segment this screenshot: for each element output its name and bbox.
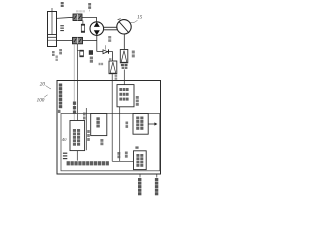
hydraulic pump 14 <box>90 22 104 36</box>
label 53 left of box4 <box>125 152 128 158</box>
hanging label right text <box>155 178 158 195</box>
tick above box4 <box>135 146 138 148</box>
controller inner box 30 <box>61 114 160 171</box>
line right of box1 <box>85 108 87 150</box>
svg-text:40: 40 <box>62 137 67 142</box>
hydraulic cylinder 10 <box>48 8 57 47</box>
solenoid below valve 36a <box>81 21 85 33</box>
arrow out of box3 <box>148 122 157 125</box>
label 31 left of motor bottom <box>108 36 111 42</box>
solenoid valve 36a <box>73 14 82 21</box>
electric motor 15 <box>117 19 131 34</box>
signal line valve2 down to controller <box>76 50 78 120</box>
label 20 <box>40 82 51 90</box>
label on signal line <box>73 102 76 114</box>
hanging label right stub <box>156 174 158 177</box>
label right of line <box>87 130 90 141</box>
wire to relief A <box>112 52 114 62</box>
check valve 34 <box>97 45 113 54</box>
svg-text:20: 20 <box>40 82 46 88</box>
tick left of relief A <box>109 58 111 60</box>
label below block 35 <box>90 57 93 63</box>
wire top from cylinder to valve <box>57 17 74 18</box>
bus line horizontal <box>112 160 133 162</box>
wire motor down <box>123 34 125 50</box>
label 51 right of box2 <box>136 96 139 106</box>
line from box2 bottom down <box>119 107 121 162</box>
second faint signal line <box>73 44 75 120</box>
label below relief 32 <box>121 64 128 69</box>
label left of line <box>83 113 86 120</box>
relief A stub into box down <box>111 74 113 162</box>
shaft pump-motor <box>104 27 117 30</box>
hanging label left text <box>138 178 141 195</box>
solenoid below valve2 <box>77 44 83 57</box>
solenoid valve 36b <box>73 37 83 43</box>
wire valve2 to pump bottom <box>83 40 97 42</box>
label near line <box>117 152 120 158</box>
wire valve to pump <box>82 18 97 23</box>
label 14 above pump <box>88 3 91 11</box>
block box1 motor control <box>70 121 85 151</box>
tick label 41 <box>58 110 61 113</box>
label 100 <box>37 95 48 104</box>
label 15 <box>130 15 143 23</box>
label 10 below cylinder <box>52 51 55 56</box>
block box3 <box>133 114 148 135</box>
hydraulic unit box 20 <box>57 81 161 175</box>
label left of box3 <box>126 122 129 128</box>
wire bottom from cylinder to valve2 <box>57 40 73 42</box>
block box4 bottom right <box>134 151 147 170</box>
svg-text:100: 100 <box>37 98 45 104</box>
label 32 right <box>132 51 135 58</box>
label 13 right-below cylinder <box>59 49 62 54</box>
faint label above valve1 <box>76 10 85 12</box>
three dashes label 30 <box>63 153 67 160</box>
hanging label left stub <box>139 174 141 177</box>
svg-text:15: 15 <box>137 15 143 21</box>
relief valve 32 <box>120 50 128 63</box>
label 52 mid <box>100 139 103 145</box>
wire box1 bottom down <box>76 151 78 161</box>
wire relief B to box2 <box>123 70 125 85</box>
label 12 above cylinder <box>61 2 64 7</box>
block box2a <box>91 114 107 136</box>
pump bottom line <box>96 35 98 51</box>
label 35b <box>99 63 104 65</box>
small block 35 <box>89 50 93 55</box>
left vertical label inside box <box>59 84 62 109</box>
relief valve 33 <box>109 61 117 74</box>
label 10a right of cylinder <box>60 25 64 31</box>
caption text bottom <box>67 161 109 165</box>
label 33 below relief A <box>115 75 118 80</box>
block box2 top <box>117 85 134 107</box>
faint fleck <box>56 56 58 62</box>
